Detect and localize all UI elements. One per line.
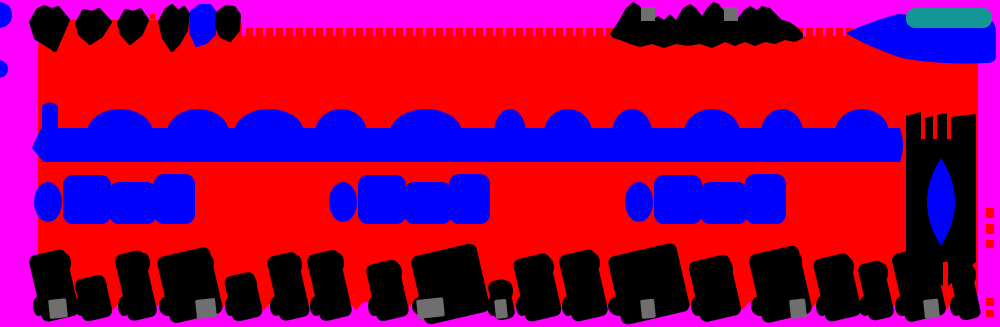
nav word 1 (black) <box>31 7 68 50</box>
left margin blue bit top <box>0 2 12 28</box>
blue sub-row group 1 <box>34 174 195 224</box>
gray icon square 1 in header cluster <box>641 7 655 21</box>
nav word 2 (black) <box>77 10 110 43</box>
right black bar bottom right tail <box>948 262 976 286</box>
gray icon square 2 in header cluster <box>724 7 738 21</box>
header text cluster (black) <box>610 2 803 48</box>
bottom row of black word blobs <box>28 242 982 326</box>
red content panel <box>38 36 978 302</box>
right black bar bottom left tail <box>906 262 943 286</box>
blue wedge + pill button <box>846 14 996 63</box>
big blue text band row 1 <box>32 103 903 163</box>
left margin blue bit lower <box>0 60 8 78</box>
blue sub-row group 3 <box>625 174 786 224</box>
blue lens inside right bar <box>927 158 955 246</box>
blue band ascender bumps <box>87 109 889 157</box>
red panel bottom sawtooth edge <box>64 300 954 310</box>
raised red tab under nav words <box>42 20 242 44</box>
right margin red ticks <box>986 208 994 317</box>
nav word 4 (black) <box>160 6 188 50</box>
red dashed texture along panel top edge <box>246 28 853 36</box>
right black bar body <box>906 112 976 262</box>
tiny red mark above tab edge <box>150 14 155 19</box>
nav word 5 (blue) <box>191 6 215 45</box>
nav word 3 (black) <box>119 10 147 43</box>
gray icon squares along bottom row <box>48 297 940 319</box>
teal pill button <box>906 8 992 28</box>
blue sub-row group 2 <box>329 174 490 224</box>
nav word 6 (black) <box>217 7 239 40</box>
